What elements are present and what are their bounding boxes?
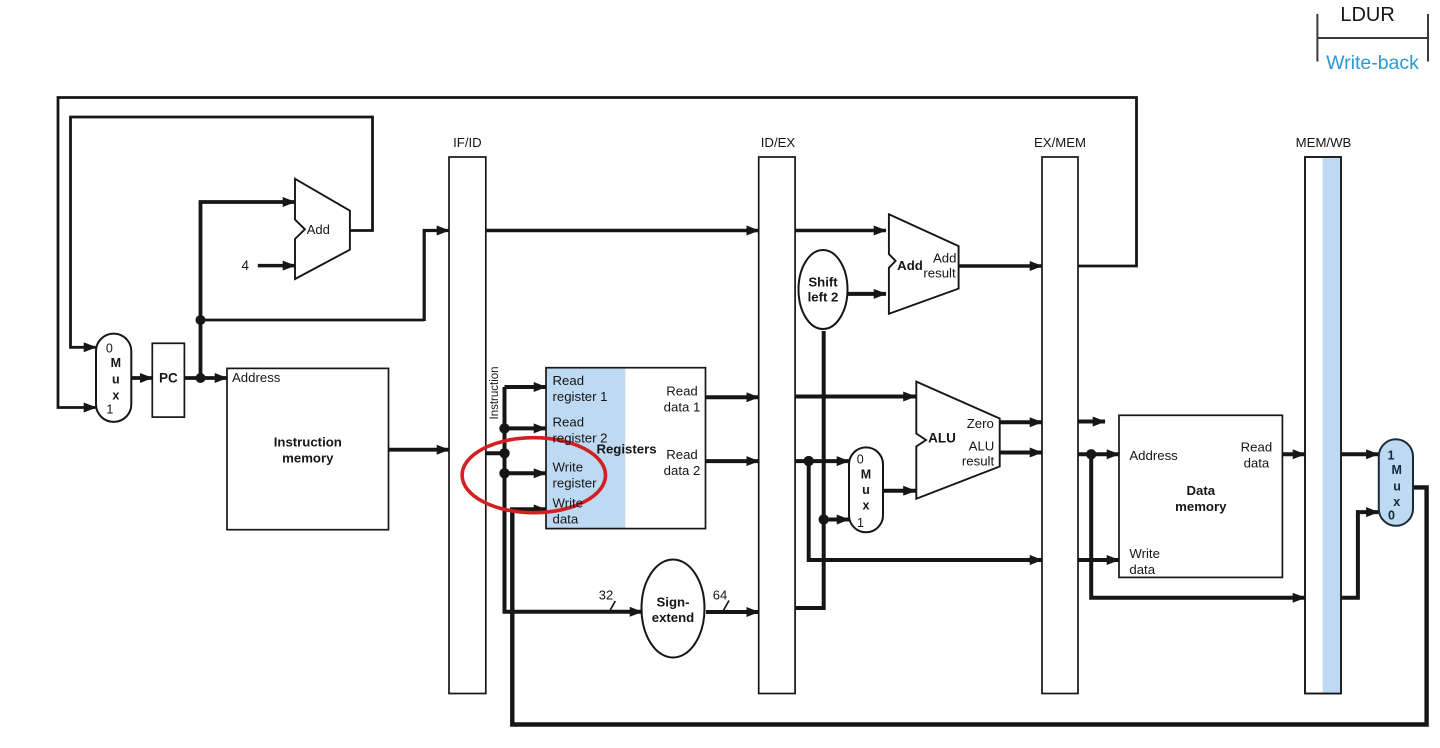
svg-text:x: x [863,499,870,513]
svg-text:Write-back: Write-back [1326,52,1419,74]
svg-text:register: register [553,475,598,490]
svg-text:register 1: register 1 [553,389,608,404]
svg-text:M: M [861,467,871,481]
svg-text:M: M [1391,463,1401,477]
svg-text:Instruction: Instruction [489,366,501,419]
svg-text:M: M [111,356,121,370]
svg-text:u: u [862,483,870,497]
svg-text:Read: Read [553,414,585,429]
svg-text:MEM/WB: MEM/WB [1296,135,1352,150]
svg-text:Write: Write [553,459,584,474]
svg-text:Write: Write [1129,546,1160,561]
svg-text:Read: Read [666,383,698,398]
svg-text:Read: Read [1241,440,1273,455]
svg-text:result: result [923,266,956,281]
svg-text:0: 0 [106,341,113,355]
svg-text:u: u [1393,480,1401,494]
svg-text:Shift: Shift [808,274,838,289]
svg-text:32: 32 [599,587,613,602]
svg-text:memory: memory [1175,499,1227,514]
svg-text:Read: Read [666,447,698,462]
svg-text:0: 0 [857,452,864,466]
svg-text:IF/ID: IF/ID [453,135,482,150]
svg-text:Add: Add [307,222,330,237]
svg-text:data: data [1129,562,1155,577]
svg-text:data: data [1244,456,1270,471]
svg-text:Address: Address [232,370,281,385]
svg-text:1: 1 [106,402,113,416]
svg-text:1: 1 [857,516,864,530]
svg-text:0: 0 [1388,509,1395,523]
svg-text:ALU: ALU [969,439,995,454]
svg-text:Instruction: Instruction [274,435,342,450]
svg-text:ALU: ALU [928,431,956,446]
svg-text:64: 64 [713,587,727,602]
svg-text:Add: Add [933,251,956,266]
svg-text:PC: PC [159,371,178,386]
svg-text:data: data [553,512,579,527]
svg-text:Zero: Zero [967,416,994,431]
svg-text:x: x [112,389,119,403]
svg-text:Data: Data [1187,483,1216,498]
svg-text:EX/MEM: EX/MEM [1034,135,1086,150]
svg-text:Write: Write [553,496,584,511]
svg-text:extend: extend [652,610,695,625]
svg-text:Add: Add [897,258,923,273]
svg-text:memory: memory [282,451,334,466]
svg-text:1: 1 [1388,449,1395,463]
svg-text:data 2: data 2 [664,463,701,478]
svg-text:u: u [112,373,120,387]
svg-text:ID/EX: ID/EX [761,135,796,150]
svg-text:Sign-: Sign- [657,595,690,610]
svg-text:x: x [1393,495,1400,509]
svg-text:LDUR: LDUR [1340,4,1394,26]
svg-text:result: result [962,454,995,469]
svg-text:Registers: Registers [596,442,656,457]
svg-text:data 1: data 1 [664,399,701,414]
svg-text:Address: Address [1129,448,1178,463]
svg-text:left 2: left 2 [808,290,839,305]
svg-text:4: 4 [242,258,250,273]
svg-text:Read: Read [553,373,585,388]
